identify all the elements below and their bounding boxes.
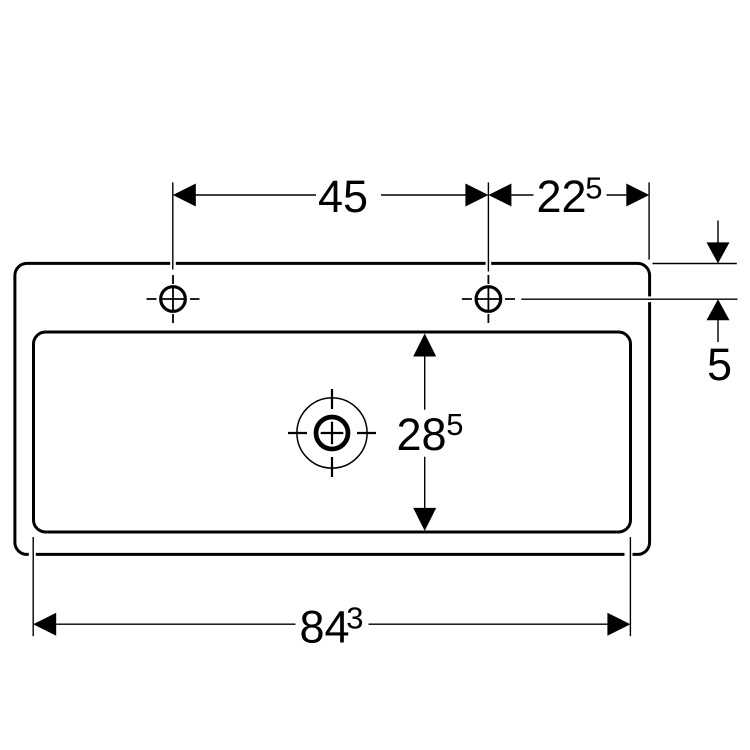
svg-text:3: 3 bbox=[346, 601, 363, 636]
arrowhead 22.5 right bbox=[626, 184, 649, 207]
extension line outer right edge (22.5) bbox=[648, 182, 650, 259]
gap in outline at left tap centerline bbox=[170, 260, 176, 266]
centerline right tap vertical bbox=[487, 275, 489, 323]
extension line left tap (45) bbox=[172, 182, 174, 269]
centerline right tap horizontal bbox=[462, 298, 515, 300]
arrowhead 84.3 right bbox=[607, 613, 630, 636]
tap hole right bbox=[476, 287, 501, 312]
svg-text:5: 5 bbox=[446, 407, 463, 442]
svg-text:5: 5 bbox=[585, 171, 602, 206]
centerline drain vertical bbox=[331, 389, 333, 477]
extension line top edge (5) bbox=[653, 263, 737, 265]
washbasin outer outline bbox=[15, 263, 650, 554]
gap in outline at right tap centerline bbox=[486, 260, 492, 266]
drain outer circle bbox=[297, 398, 367, 468]
svg-text:22: 22 bbox=[537, 171, 587, 222]
arrowhead 28.5 down bbox=[413, 508, 436, 531]
dimension line 22.5 bbox=[511, 194, 626, 196]
svg-text:5: 5 bbox=[707, 339, 732, 390]
arrowhead 22.5 left bbox=[488, 184, 511, 207]
arrowhead 5 up bbox=[707, 299, 730, 320]
arrowhead 45 left bbox=[173, 184, 196, 207]
dimension 5 upper tail bbox=[717, 221, 719, 244]
dimension line 45 bbox=[196, 194, 467, 196]
basin inner outline bbox=[34, 332, 631, 532]
arrowhead 84.3 left bbox=[33, 613, 56, 636]
arrowhead 45 right bbox=[465, 184, 488, 207]
svg-text:84: 84 bbox=[300, 602, 350, 653]
extension line tap-hole height (5) bbox=[521, 298, 737, 300]
gap in outline at left basin extension line bbox=[29, 551, 36, 557]
dimension 5 lower tail bbox=[717, 320, 719, 342]
drain inner ring bbox=[316, 417, 348, 449]
extension line right basin (84.3) bbox=[629, 537, 631, 636]
svg-text:45: 45 bbox=[318, 171, 368, 222]
centerline drain horizontal bbox=[288, 432, 376, 434]
dimension line 84.3 bbox=[56, 623, 607, 625]
centerline left tap horizontal bbox=[147, 298, 200, 300]
gap in outline at right basin extension line bbox=[625, 551, 633, 557]
arrowhead 5 down bbox=[707, 242, 730, 263]
centerline left tap vertical bbox=[172, 275, 174, 323]
arrowhead 28.5 up bbox=[413, 334, 436, 357]
dimension line 28.5 bbox=[424, 356, 426, 509]
tap hole left bbox=[161, 287, 186, 312]
extension line right tap (45/22.5) bbox=[487, 182, 489, 271]
svg-text:28: 28 bbox=[397, 409, 447, 460]
extension line left basin (84.3) bbox=[32, 537, 34, 636]
gap in outline at tap-hole height line bbox=[647, 296, 653, 302]
